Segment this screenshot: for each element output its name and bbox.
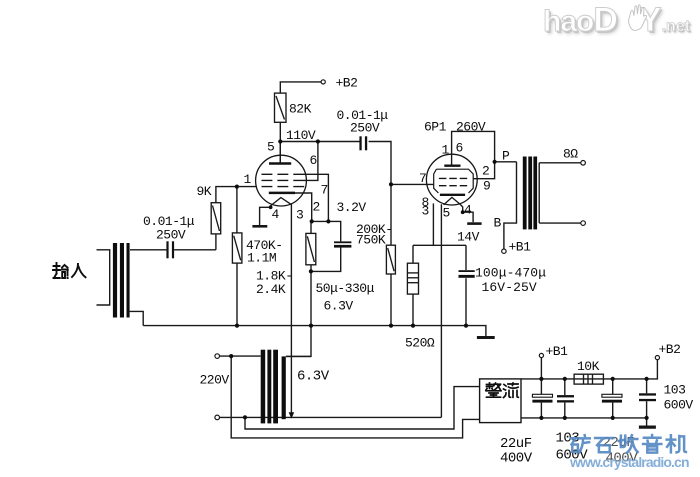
svg-text:+B1: +B1 bbox=[509, 240, 532, 255]
svg-text:+B2: +B2 bbox=[659, 342, 681, 357]
svg-text:400V: 400V bbox=[500, 451, 533, 467]
svg-text:260V: 260V bbox=[456, 120, 486, 135]
svg-text:9: 9 bbox=[483, 179, 490, 194]
svg-text:4: 4 bbox=[272, 207, 280, 222]
svg-text:1.1M: 1.1M bbox=[247, 251, 276, 266]
svg-text:7: 7 bbox=[419, 171, 426, 186]
svg-text:2: 2 bbox=[313, 200, 320, 215]
svg-text:10K: 10K bbox=[577, 359, 600, 374]
svg-text:4: 4 bbox=[464, 203, 472, 218]
svg-text:1: 1 bbox=[442, 143, 450, 158]
svg-text:110V: 110V bbox=[286, 128, 316, 143]
svg-text:6: 6 bbox=[310, 153, 317, 168]
svg-text:16V-25V: 16V-25V bbox=[482, 280, 537, 295]
svg-text:5: 5 bbox=[267, 140, 274, 155]
svg-text:82K: 82K bbox=[289, 102, 312, 117]
svg-text:50μ-330μ: 50μ-330μ bbox=[316, 281, 375, 296]
svg-text:+B2: +B2 bbox=[336, 76, 358, 91]
svg-text:3: 3 bbox=[296, 208, 303, 223]
svg-text:6.3V: 6.3V bbox=[297, 369, 330, 385]
svg-text:www.crystalradio.cn: www.crystalradio.cn bbox=[569, 454, 689, 470]
svg-text:8Ω: 8Ω bbox=[563, 147, 578, 162]
svg-text:103: 103 bbox=[664, 383, 686, 398]
svg-text:250V: 250V bbox=[156, 228, 186, 243]
svg-text:750K: 750K bbox=[356, 233, 386, 248]
svg-text:7: 7 bbox=[321, 183, 328, 198]
svg-text:100μ-470μ: 100μ-470μ bbox=[475, 266, 546, 281]
svg-text:250V: 250V bbox=[350, 121, 380, 136]
svg-text:B: B bbox=[494, 216, 502, 231]
svg-text:2: 2 bbox=[482, 164, 489, 179]
svg-text:3: 3 bbox=[422, 204, 429, 219]
svg-text:6: 6 bbox=[456, 141, 463, 156]
svg-text:9K: 9K bbox=[197, 184, 212, 199]
svg-text:220V: 220V bbox=[200, 373, 230, 388]
svg-text:5: 5 bbox=[443, 206, 450, 221]
svg-text:2.4K: 2.4K bbox=[256, 282, 286, 297]
svg-text:1: 1 bbox=[244, 172, 252, 187]
svg-text:14V: 14V bbox=[457, 230, 480, 245]
svg-text:6P1: 6P1 bbox=[424, 120, 447, 135]
svg-text:P: P bbox=[502, 149, 510, 164]
svg-text:+B1: +B1 bbox=[546, 344, 569, 359]
svg-text:6.3V: 6.3V bbox=[324, 299, 354, 314]
svg-text:600V: 600V bbox=[664, 398, 694, 413]
svg-text:520Ω: 520Ω bbox=[405, 336, 435, 351]
svg-text:3.2V: 3.2V bbox=[337, 200, 367, 215]
